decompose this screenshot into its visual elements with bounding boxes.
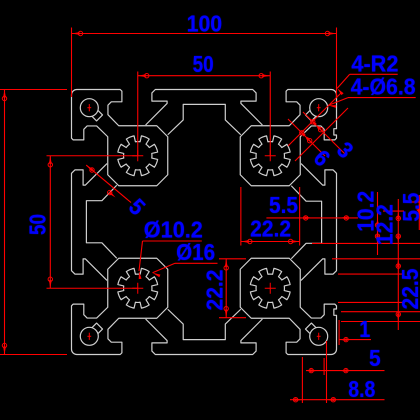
tongue top	[146, 90, 263, 135]
center marks keyholes	[87, 107, 91, 109]
tongue left	[72, 164, 117, 281]
keyhole circle	[80, 99, 98, 117]
gear channel	[118, 136, 158, 176]
dim far-left height	[4, 90, 6, 355]
ext lines 50 left	[47, 155, 138, 157]
svg-text:12.2: 12.2	[372, 204, 398, 245]
svg-text:100: 100	[187, 11, 223, 37]
ext lines 100	[71, 28, 73, 98]
leader 4-D6.8	[348, 97, 416, 99]
keyhole stem slot	[92, 110, 103, 121]
leader D16	[175, 262, 218, 264]
bottom right ext lines	[301, 357, 303, 403]
svg-text:Ø16: Ø16	[176, 239, 215, 265]
dim 5 bottom	[306, 370, 385, 372]
gear channel	[250, 136, 290, 176]
svg-text:4-Ø6.8: 4-Ø6.8	[351, 74, 416, 100]
right side ext lines	[383, 210, 404, 212]
svg-text:5: 5	[369, 345, 381, 371]
tongue center recess with support legs	[168, 104, 241, 134]
dim 22.2 horizontal	[240, 187, 242, 246]
tongue right	[291, 164, 336, 281]
dim 22.2 vertical	[219, 258, 246, 260]
svg-text:22.2: 22.2	[250, 216, 291, 242]
diag ext lines TR web	[288, 93, 341, 146]
keyhole circle	[310, 99, 328, 117]
dim 5.5 right	[418, 195, 420, 230]
corner block with octagon boss (notched face)	[240, 90, 336, 186]
ext/center lines 50 top	[137, 72, 139, 156]
ext lines far-left dim	[0, 89, 67, 91]
svg-text:5.5: 5.5	[398, 192, 420, 221]
dim 1	[339, 339, 371, 341]
svg-text:5.5: 5.5	[269, 192, 298, 218]
dim 5 TL diagonal	[86, 165, 131, 202]
keyhole stem slot	[305, 110, 316, 121]
dim 12.2 / 22.5	[397, 199, 399, 330]
corner BR (notched)	[240, 258, 336, 354]
dim 100	[72, 33, 337, 35]
tongue bottom	[146, 309, 263, 354]
svg-text:50: 50	[193, 51, 214, 77]
leader 4-R2	[350, 73, 398, 75]
leader D10.2	[143, 240, 202, 242]
corner TR (mirrored, notched)	[240, 90, 336, 186]
svg-text:50: 50	[24, 214, 50, 235]
corner BL	[72, 258, 168, 354]
svg-text:22.5: 22.5	[397, 268, 420, 309]
dim 6 web width	[288, 119, 325, 156]
dim 10.2	[377, 192, 379, 255]
dim 50 left	[49, 156, 51, 289]
svg-text:8.8: 8.8	[348, 376, 375, 402]
corner block with octagon boss	[72, 90, 168, 186]
corner TL	[72, 90, 168, 186]
dim 8.8	[290, 399, 385, 401]
center marks gears	[132, 155, 143, 157]
svg-text:1: 1	[359, 316, 370, 342]
svg-text:22.2: 22.2	[202, 270, 228, 311]
dim 3 stem width	[303, 112, 345, 154]
dim 50 top	[138, 75, 271, 77]
tongue lips	[146, 90, 263, 126]
